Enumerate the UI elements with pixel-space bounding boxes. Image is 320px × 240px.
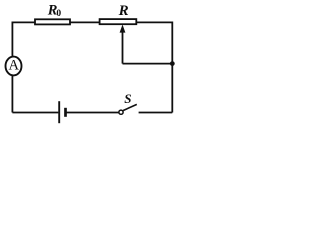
svg-text:0: 0 xyxy=(56,9,61,19)
svg-text:S: S xyxy=(124,91,131,106)
svg-text:R: R xyxy=(118,3,129,19)
svg-text:A: A xyxy=(8,57,19,73)
